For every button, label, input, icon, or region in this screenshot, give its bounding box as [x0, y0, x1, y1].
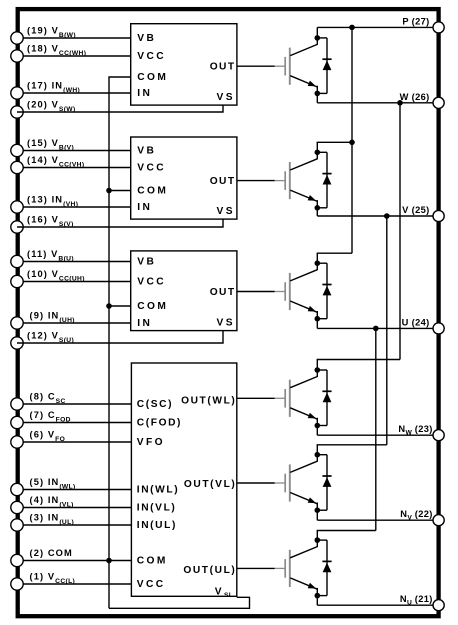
- high-side gate driver U1: [131, 24, 237, 105]
- pin (17) IN(WH): [11, 81, 131, 100]
- svg-text:W (26): W (26): [400, 92, 430, 102]
- IGBT Q1: [275, 44, 318, 87]
- high-side gate driver U2: [131, 137, 237, 219]
- free-wheel diode D2: [317, 152, 331, 208]
- pin (11) VB(U): [11, 249, 131, 268]
- svg-text:VB: VB: [137, 257, 156, 268]
- low-side gate driver U4 (control IC): [131, 363, 236, 599]
- svg-text:VCC: VCC: [137, 277, 166, 288]
- free-wheel diode D5: [317, 455, 331, 511]
- junction: Q5 collector / diode cathode: [315, 452, 321, 458]
- W phase bus wire: [399, 103, 401, 360]
- svg-text:COM: COM: [137, 72, 168, 83]
- junction: Q6 collector / diode cathode: [315, 537, 321, 543]
- svg-text:OUT: OUT: [210, 62, 236, 73]
- wire: V (25) rail: [317, 215, 433, 217]
- V phase bus wire: [386, 216, 388, 445]
- free-wheel diode D6: [317, 540, 331, 596]
- svg-text:OUT(UL): OUT(UL): [183, 565, 236, 576]
- wire: Q5 collector to bus: [317, 444, 387, 446]
- svg-text:OUT: OUT: [210, 287, 236, 298]
- svg-text:VFO: VFO: [137, 437, 165, 448]
- junction: COM bus / U3 COM: [106, 303, 112, 309]
- pin (9) IN(UH): [11, 311, 131, 329]
- svg-text:VCC: VCC: [137, 163, 166, 174]
- svg-text:IN: IN: [137, 88, 152, 99]
- terminal V (25): [402, 205, 444, 222]
- svg-text:OUT: OUT: [210, 176, 236, 187]
- junction: U rail / U bus: [373, 326, 379, 332]
- wire: U (24) rail: [317, 327, 433, 329]
- wire: Q1 collector riser: [316, 27, 318, 45]
- junction: COM bus / pin 2 COM wire: [106, 558, 112, 564]
- svg-text:VCC: VCC: [137, 579, 166, 590]
- pin (18) VCC(WH): [11, 44, 131, 62]
- junction: Q2 emitter / diode anode: [315, 205, 321, 211]
- wire: COM bus to U2 COM pin: [109, 190, 131, 192]
- IGBT Q6: [275, 547, 318, 590]
- wire: NU (21) rail: [317, 604, 433, 606]
- svg-text:VS: VS: [217, 206, 235, 217]
- wire: driver OUT to Q1 gate: [237, 65, 275, 67]
- svg-text:VB: VB: [137, 33, 156, 44]
- pin (10) VCC(UH): [11, 269, 131, 287]
- pin (8) CSC: [11, 392, 132, 410]
- svg-text:V (25): V (25): [402, 205, 429, 215]
- pin (4) IN(VL): [11, 495, 132, 514]
- wire: Q6 collector riser: [316, 531, 318, 548]
- svg-text:COM: COM: [137, 556, 168, 567]
- wire: driver OUT to Q6 gate: [237, 567, 275, 569]
- wire: U2 VS to V_S pin: [17, 219, 223, 227]
- junction: Q3 emitter / diode anode: [315, 316, 321, 322]
- U phase bus wire: [375, 328, 377, 530]
- junction: Q4 emitter / diode anode: [315, 423, 321, 429]
- svg-text:IN: IN: [137, 318, 152, 329]
- wire: Q4 collector to bus: [317, 359, 400, 361]
- pin (2) COM: [11, 548, 132, 567]
- junction: Q5 emitter / diode anode: [315, 507, 321, 513]
- pin (14) VCC(VH): [11, 155, 131, 174]
- IGBT Q5: [275, 461, 318, 504]
- svg-text:IN(VL): IN(VL): [137, 503, 177, 514]
- high-side gate driver U3: [131, 251, 237, 331]
- COM net bus wire: [109, 77, 131, 608]
- wire: Q3 collector riser: [316, 253, 318, 270]
- terminal NW (23): [398, 424, 444, 441]
- IGBT Q3: [275, 270, 318, 313]
- svg-text:IN(WL): IN(WL): [137, 485, 179, 496]
- junction: V rail / V bus: [384, 213, 390, 219]
- wire: driver OUT to Q4 gate: [237, 397, 275, 399]
- svg-text:IN: IN: [137, 202, 152, 213]
- junction: P bus / Q2 collector: [349, 140, 355, 146]
- pin (1) VCC(L): [11, 572, 132, 591]
- svg-text:VCC: VCC: [137, 51, 166, 62]
- pin (6) VFO: [11, 430, 132, 448]
- svg-text:VB: VB: [137, 146, 156, 157]
- svg-text:OUT(WL): OUT(WL): [181, 395, 236, 406]
- terminal NV (22): [400, 509, 444, 526]
- pin (16) VS(V): [11, 215, 74, 234]
- wire: U3 VS to V_S pin: [17, 331, 223, 343]
- wire: Q5 collector riser: [316, 445, 318, 462]
- svg-text:COM: COM: [137, 186, 168, 197]
- junction: Q4 collector / diode cathode: [315, 367, 321, 373]
- pin (3) IN(UL): [11, 513, 132, 532]
- wire: COM bus to U3 COM pin: [109, 305, 131, 307]
- svg-text:VS: VS: [217, 92, 235, 103]
- junction: Q3 collector / diode cathode: [315, 260, 321, 266]
- pin (15) VB(V): [11, 138, 131, 157]
- svg-text:P (27): P (27): [402, 16, 429, 26]
- free-wheel diode D3: [317, 263, 331, 319]
- terminal U (24): [402, 317, 445, 334]
- terminal NU (21): [400, 594, 444, 611]
- junction: P rail / P bus: [349, 25, 355, 31]
- svg-text:VS: VS: [217, 317, 235, 328]
- wire: Q3 collector to bus: [317, 252, 352, 254]
- svg-text:OUT(VL): OUT(VL): [184, 479, 237, 490]
- wire: W (26) rail: [317, 102, 433, 104]
- pin (19) VB(W): [11, 26, 131, 44]
- wire: P (27) rail: [317, 26, 433, 28]
- wire: Q2 emitter riser: [316, 200, 318, 216]
- terminal P (27): [402, 16, 444, 33]
- pin (12) VS(U): [11, 331, 74, 349]
- wire: Q5 emitter riser: [316, 503, 318, 521]
- wire: U1 VS to V_S pin: [17, 105, 223, 112]
- wire: Q4 collector riser: [316, 360, 318, 378]
- IGBT Q2: [275, 159, 318, 202]
- wire: Q4 emitter riser: [316, 418, 318, 435]
- junction: W rail / W bus: [397, 100, 403, 106]
- svg-text:(2) COM: (2) COM: [30, 548, 73, 558]
- svg-text:IN(UL): IN(UL): [137, 520, 177, 531]
- P bus wire: [351, 27, 353, 253]
- pin (5) IN(WL): [11, 477, 132, 495]
- wire: Q2 collector to bus: [317, 141, 352, 143]
- free-wheel diode D1: [317, 38, 331, 94]
- junction: Q6 emitter / diode anode: [315, 593, 321, 599]
- wire: driver OUT to Q5 gate: [237, 482, 275, 484]
- wire: NV (22) rail: [317, 519, 433, 521]
- wire: Q6 emitter riser: [316, 588, 318, 605]
- wire: NW (23) rail: [317, 434, 433, 436]
- junction: COM bus / U2 COM: [106, 188, 112, 194]
- wire: driver OUT to Q3 gate: [237, 291, 275, 293]
- terminal W (26): [400, 92, 445, 109]
- pin (13) IN(VH): [11, 195, 131, 214]
- junction: Q2 collector / diode cathode: [315, 150, 321, 156]
- svg-text:COM: COM: [137, 301, 168, 312]
- wire: driver OUT to Q2 gate: [237, 180, 275, 182]
- svg-text:C(FOD): C(FOD): [137, 418, 182, 429]
- svg-text:C(SC): C(SC): [137, 399, 173, 410]
- wire: VSL pin of U4 to COM bus: [109, 597, 250, 608]
- wire: Q2 collector riser: [316, 142, 318, 159]
- IGBT Q4: [275, 377, 318, 420]
- junction: Q1 collector / diode cathode: [315, 35, 321, 41]
- wire: Q3 emitter riser: [316, 311, 318, 328]
- pin (20) VS(W): [11, 100, 76, 119]
- junction: Q1 emitter / diode anode: [315, 91, 321, 97]
- wire: Q6 collector to bus: [317, 530, 376, 532]
- svg-text:U (24): U (24): [402, 317, 430, 327]
- free-wheel diode D4: [317, 370, 331, 426]
- wire: Q1 emitter riser: [316, 86, 318, 103]
- pin (7) CFOD: [11, 410, 132, 428]
